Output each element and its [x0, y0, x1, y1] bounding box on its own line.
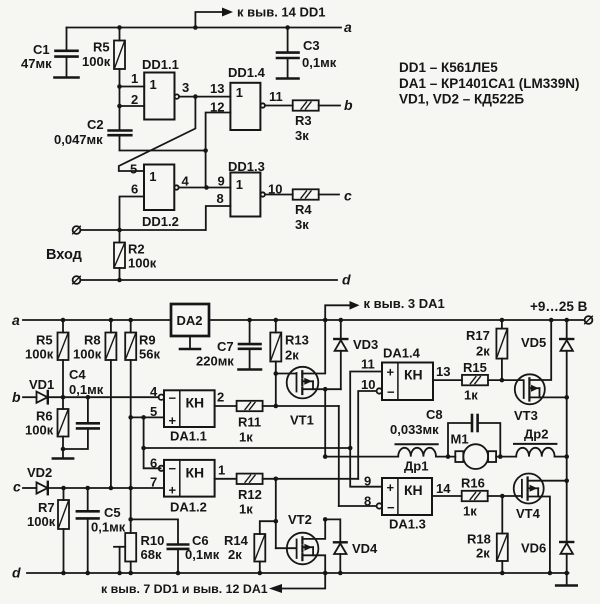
- wire gate riser VT1: [275, 374, 277, 407]
- wire feedback diagonal: [119, 97, 196, 171]
- node feedback branch: [141, 446, 146, 451]
- svg-text:+: +: [169, 483, 177, 498]
- resistor R18: [501, 496, 503, 534]
- VT1 substrate arrow: [303, 380, 313, 382]
- regulator DA2: [171, 304, 209, 336]
- wire pin 10: [358, 391, 376, 479]
- capacitor C1: [66, 28, 68, 51]
- svg-text:R3: R3: [295, 113, 312, 128]
- wire motor right: [496, 456, 516, 458]
- node line c R8: [109, 486, 114, 491]
- svg-text:3к: 3к: [295, 128, 309, 143]
- node VD5-VT3 drain: [564, 395, 569, 400]
- svg-text:2: 2: [131, 92, 138, 107]
- resistor R9: [130, 320, 132, 333]
- wire rail a top: [67, 27, 342, 29]
- VT4 substrate arrow: [528, 487, 538, 489]
- node pin5 branch: [141, 415, 146, 420]
- node R6-C4 bottom: [61, 447, 66, 452]
- op-amp DA1.1: [164, 390, 215, 427]
- svg-text:R5: R5: [93, 40, 110, 55]
- node VT2 drain node: [323, 517, 328, 522]
- svg-text:1к: 1к: [239, 430, 253, 445]
- svg-text:DA2: DA2: [177, 313, 203, 328]
- svg-text:56к: 56к: [139, 347, 160, 362]
- svg-text:0,1мк: 0,1мк: [91, 520, 126, 535]
- node pin5-R9: [128, 415, 133, 420]
- node R5-pin1: [117, 84, 122, 89]
- op-amp DD1.4: [230, 83, 260, 130]
- wire to pin 14 arrow: [195, 12, 223, 28]
- op-amp DA1.4: [382, 363, 433, 401]
- wire R15 to VT3 gate: [488, 379, 523, 381]
- wire VD4 jog: [325, 519, 340, 541]
- node line c R7: [61, 486, 66, 491]
- svg-text:КН: КН: [186, 395, 205, 411]
- wire pin 4 output: [179, 187, 231, 189]
- svg-text:100к: 100к: [25, 423, 54, 438]
- wire common reference line: [144, 447, 351, 449]
- svg-text:5: 5: [130, 162, 137, 177]
- svg-text:b: b: [12, 389, 21, 405]
- wire DA1.2 output 1: [215, 478, 237, 480]
- VT4 source tap: [528, 497, 550, 574]
- inductor Др2: [516, 448, 554, 457]
- svg-text:11: 11: [361, 357, 375, 372]
- svg-text:1: 1: [131, 71, 138, 86]
- svg-text:13: 13: [210, 81, 224, 96]
- capacitor C5: [87, 488, 89, 511]
- svg-text:0,1мк: 0,1мк: [185, 547, 220, 562]
- svg-text:VD6: VD6: [521, 541, 546, 556]
- wire pin5 to pin6 column: [144, 417, 161, 468]
- node VT1 drain junction: [323, 387, 328, 392]
- wire pin 8: [339, 505, 377, 507]
- svg-text:VD3: VD3: [353, 337, 378, 352]
- ground bar C7: [239, 368, 262, 371]
- svg-text:13: 13: [436, 364, 450, 379]
- node rail-C3 junction: [285, 25, 290, 30]
- svg-text:DA1.1: DA1.1: [170, 429, 207, 444]
- svg-text:R16: R16: [461, 476, 485, 491]
- wire R8 down to line c: [110, 360, 112, 488]
- svg-text:R8: R8: [84, 333, 101, 348]
- wire pin 8: [206, 206, 231, 230]
- terminal Вход lower: [73, 276, 81, 284]
- resistor R12: [237, 474, 263, 484]
- svg-text:КН: КН: [404, 482, 423, 498]
- channel VT1: [301, 371, 303, 377]
- VT3 substrate arrow: [530, 387, 540, 389]
- wire gate column VT2: [275, 479, 277, 548]
- VT1 source tap to rail: [302, 320, 325, 374]
- diode VD1: [23, 396, 37, 398]
- node R5-pin2: [117, 104, 122, 109]
- svg-text:VD1: VD1: [29, 377, 54, 392]
- svg-text:2к: 2к: [285, 348, 299, 363]
- svg-text:Вход: Вход: [46, 247, 82, 263]
- resistor R3: [293, 100, 319, 110]
- inductor Др1: [398, 448, 436, 457]
- op-amp DA1.3: [382, 478, 432, 515]
- wire R14 jog: [260, 521, 276, 534]
- node pin3 junction: [193, 94, 198, 99]
- node line b C4: [86, 395, 91, 400]
- wire Вход line: [81, 229, 206, 231]
- wire pin 11 output: [265, 105, 293, 107]
- wire line c into pin 7: [48, 487, 164, 489]
- capacitor C6: [131, 519, 178, 544]
- node gate-R13 junction: [274, 371, 279, 376]
- svg-text:12: 12: [210, 100, 224, 115]
- svg-text:C8: C8: [426, 407, 443, 422]
- svg-text:1: 1: [150, 77, 157, 92]
- svg-text:100к: 100к: [82, 54, 111, 69]
- svg-text:d: d: [342, 272, 351, 288]
- svg-text:C5: C5: [104, 505, 121, 520]
- svg-text:11: 11: [269, 89, 283, 104]
- wire R11 output: [263, 405, 339, 407]
- transistor VT4: [514, 474, 544, 504]
- node R2 bottom junction: [117, 278, 122, 283]
- op-amp DA1.2: [164, 460, 215, 497]
- svg-text:100к: 100к: [27, 514, 56, 529]
- label parts list: [399, 60, 579, 107]
- resistor R6: [62, 397, 64, 409]
- transistor VT3: [515, 374, 545, 404]
- svg-text:6: 6: [131, 182, 138, 197]
- wire pin 3 output: [179, 96, 230, 98]
- wire Др1 to motor: [436, 456, 455, 458]
- resistor R16: [462, 491, 488, 501]
- resistor R8: [110, 320, 112, 333]
- arrowhead к выв. 7: [269, 584, 282, 593]
- svg-text:b: b: [344, 97, 353, 113]
- svg-text:Др2: Др2: [524, 427, 548, 442]
- svg-text:−: −: [387, 500, 395, 515]
- node drain-motor junction: [323, 454, 328, 459]
- svg-text:R18: R18: [467, 532, 491, 547]
- svg-text:1: 1: [218, 463, 225, 478]
- svg-text:R6: R6: [36, 409, 53, 424]
- channel VT4: [526, 478, 528, 484]
- svg-text:VD2: VD2: [27, 465, 52, 480]
- svg-text:DD1.1: DD1.1: [142, 57, 179, 72]
- arrowhead к выв. 3: [350, 301, 360, 310]
- wire to pin 3 DA1 arrow: [325, 305, 350, 320]
- svg-text:R12: R12: [238, 487, 262, 502]
- svg-text:2к: 2к: [228, 547, 242, 562]
- svg-text:+: +: [387, 480, 395, 495]
- svg-text:КН: КН: [186, 465, 205, 481]
- ground bar C1: [55, 76, 79, 79]
- VT3 drain tap: [529, 396, 566, 398]
- svg-text:1к: 1к: [239, 502, 253, 517]
- svg-text:2к: 2к: [476, 546, 490, 561]
- svg-text:220мк: 220мк: [196, 354, 234, 369]
- capacitor C4: [87, 397, 89, 423]
- svg-text:c: c: [13, 479, 21, 495]
- svg-text:R7: R7: [38, 500, 55, 515]
- wire DA1.1 output 2: [215, 405, 237, 407]
- svg-text:c: c: [344, 188, 352, 204]
- resistor R5 (top): [119, 28, 121, 41]
- wire pin 9: [350, 448, 382, 487]
- svg-text:C1: C1: [33, 42, 50, 57]
- svg-text:10: 10: [361, 377, 375, 392]
- svg-text:0,047мк: 0,047мк: [54, 132, 103, 147]
- svg-text:DA1 – КР1401СА1 (LM339N): DA1 – КР1401СА1 (LM339N): [399, 76, 579, 91]
- channel VT3: [528, 378, 530, 384]
- wire line d top: [81, 279, 338, 281]
- svg-text:1: 1: [149, 169, 156, 184]
- svg-text:к выв. 7 DD1 и выв. 12 DA1: к выв. 7 DD1 и выв. 12 DA1: [101, 582, 268, 596]
- wire pin 10 output: [265, 194, 293, 196]
- node rail-arrow junction: [193, 25, 198, 30]
- svg-text:C3: C3: [303, 38, 320, 53]
- node reference-pin11/pin9: [348, 446, 353, 451]
- svg-text:47мк: 47мк: [21, 56, 52, 71]
- svg-text:4: 4: [182, 174, 190, 189]
- svg-text:R5: R5: [36, 333, 53, 348]
- node line c R9/R10: [128, 486, 133, 491]
- svg-text:3к: 3к: [295, 217, 309, 232]
- svg-text:DA1.4: DA1.4: [383, 346, 421, 361]
- node R12-gate junction: [274, 477, 279, 482]
- node rail-R5 junction: [117, 25, 122, 30]
- wire pin 1 DD1.1: [120, 86, 145, 88]
- ground bottom right: [566, 573, 568, 585]
- ground bar C3: [277, 77, 299, 80]
- op-amp DD1.2: [144, 165, 174, 211]
- svg-text:R11: R11: [238, 415, 261, 430]
- node rail junctions: [61, 318, 569, 323]
- svg-text:−: −: [169, 391, 177, 406]
- node C2 junction: [203, 148, 208, 153]
- capacitor C3: [287, 28, 289, 53]
- svg-text:1к: 1к: [464, 388, 478, 403]
- ground DA2: [189, 336, 191, 348]
- resistor R15: [462, 375, 488, 385]
- svg-text:0,1мк: 0,1мк: [69, 382, 104, 397]
- resistor R11: [237, 401, 263, 411]
- svg-text:+: +: [387, 365, 395, 380]
- wire drain down to motor line: [324, 389, 326, 456]
- resistor R4: [293, 189, 319, 199]
- svg-text:к выв. 14 DD1: к выв. 14 DD1: [237, 5, 326, 20]
- node Др2 junction: [564, 454, 569, 459]
- svg-text:DD1.3: DD1.3: [228, 159, 265, 174]
- svg-text:1к: 1к: [463, 504, 477, 519]
- wire R16 to VT4 gate: [488, 495, 522, 497]
- op-amp DD1.1: [144, 73, 174, 120]
- svg-text:100к: 100к: [128, 256, 157, 271]
- svg-text:R14: R14: [224, 533, 249, 548]
- svg-text:C4: C4: [69, 367, 86, 382]
- node R15-R17 junction: [500, 378, 505, 383]
- svg-text:a: a: [344, 19, 352, 35]
- svg-text:DD1.4: DD1.4: [228, 65, 266, 80]
- svg-text:R2: R2: [128, 242, 145, 257]
- VT2 drain tap: [302, 519, 325, 539]
- wire rail a bottom: [23, 319, 171, 321]
- wire DA1.3 output 14: [432, 495, 462, 497]
- wire VT2 gate: [276, 547, 297, 549]
- svg-text:14: 14: [436, 481, 451, 496]
- op-amp DD1.3: [230, 173, 260, 217]
- node motor-C8 junction: [498, 454, 503, 459]
- svg-text:6: 6: [150, 455, 157, 470]
- channel VT2: [301, 537, 303, 543]
- svg-text:C6: C6: [192, 533, 209, 548]
- resistor R17: [501, 320, 503, 329]
- svg-text:+9…25 В: +9…25 В: [530, 299, 588, 314]
- node R10-C6 branch: [128, 517, 133, 522]
- wire line d bottom rail: [27, 572, 569, 574]
- svg-text:2: 2: [217, 390, 224, 405]
- wire VD column to VT4 drain: [566, 457, 568, 481]
- svg-text:−: −: [387, 385, 395, 400]
- svg-text:100к: 100к: [73, 347, 102, 362]
- svg-text:DD1.2: DD1.2: [142, 214, 179, 229]
- resistor R10 trimmer: [130, 488, 132, 533]
- capacitor C7: [249, 320, 251, 344]
- terminal Вход upper: [73, 226, 81, 234]
- wire Др2 to VD column: [555, 456, 567, 458]
- svg-text:R9: R9: [139, 333, 156, 348]
- svg-text:2к: 2к: [476, 344, 490, 359]
- svg-text:VT2: VT2: [288, 512, 312, 527]
- wire R11 to pin 8 column: [338, 406, 340, 506]
- wire R12 output to pin10 column: [263, 478, 359, 480]
- VT3 source tap to rail: [529, 320, 551, 380]
- node R2 top junction: [117, 228, 122, 233]
- svg-text:R10: R10: [141, 533, 165, 548]
- resistor R13: [275, 320, 277, 333]
- svg-text:R4: R4: [295, 202, 312, 217]
- wire DA1.4 output 13: [433, 379, 462, 381]
- svg-text:−: −: [169, 461, 177, 476]
- wire pin5: [131, 416, 164, 418]
- ground bar R6: [53, 457, 73, 460]
- svg-text:100к: 100к: [25, 347, 54, 362]
- node rail d junctions: [61, 571, 569, 576]
- svg-text:C2: C2: [87, 117, 104, 132]
- resistor R2: [119, 230, 121, 243]
- wire R9 down to pin5 and line c: [130, 360, 132, 488]
- VT4 drain tap: [528, 480, 567, 482]
- svg-text:DA1.3: DA1.3: [389, 517, 426, 532]
- node line b R6: [61, 395, 66, 400]
- wire C2 to pin 12: [120, 113, 231, 151]
- resistor R7: [63, 488, 65, 500]
- svg-text:M1: M1: [451, 432, 469, 447]
- svg-text:8: 8: [217, 191, 224, 206]
- svg-text:R13: R13: [285, 333, 309, 348]
- node R11-gate junction: [274, 404, 279, 409]
- svg-text:VT4: VT4: [516, 506, 541, 521]
- svg-text:+: +: [169, 413, 177, 428]
- svg-text:1: 1: [236, 85, 243, 100]
- svg-text:КН: КН: [404, 367, 423, 383]
- svg-text:Др1: Др1: [404, 459, 428, 474]
- svg-text:0,1мк: 0,1мк: [302, 55, 337, 70]
- VT1 drain tap: [302, 388, 325, 390]
- svg-text:a: a: [12, 312, 20, 328]
- node VT4 drain junction: [564, 478, 569, 483]
- svg-text:VD5: VD5: [521, 335, 546, 350]
- svg-text:0,033мк: 0,033мк: [390, 422, 439, 437]
- transistor VT2: [287, 533, 319, 565]
- diode VD3: [340, 320, 342, 338]
- svg-text:9: 9: [218, 174, 225, 189]
- svg-text:R15: R15: [463, 360, 487, 375]
- svg-text:DA1.2: DA1.2: [170, 500, 207, 515]
- svg-text:DD1 – К561ЛЕ5: DD1 – К561ЛЕ5: [399, 60, 498, 75]
- svg-text:VT3: VT3: [514, 408, 538, 423]
- VT2 substrate arrow: [303, 546, 313, 548]
- wire pin 2 DD1.1: [120, 105, 145, 107]
- wire pin 6: [120, 197, 145, 231]
- wire to pin 7/12 arrow: [281, 573, 325, 589]
- node line c C5: [85, 486, 90, 491]
- svg-text:C7: C7: [217, 339, 234, 354]
- svg-text:7: 7: [150, 474, 157, 489]
- capacitor C2: [109, 129, 132, 132]
- svg-text:к выв. 3 DA1: к выв. 3 DA1: [364, 296, 445, 311]
- node R16-R18 junction: [500, 494, 505, 499]
- VT2 source tap: [302, 555, 325, 573]
- node pin4 junction: [204, 185, 209, 190]
- svg-text:R17: R17: [466, 328, 490, 343]
- svg-text:VD1, VD2 – КД522Б: VD1, VD2 – КД522Б: [399, 92, 524, 107]
- terminal +9...25 В: [585, 316, 593, 324]
- svg-text:10: 10: [268, 182, 282, 197]
- svg-text:d: d: [12, 565, 21, 581]
- wire line b: [48, 396, 159, 398]
- node R14 branch: [274, 519, 279, 524]
- transistor VT1: [287, 367, 319, 399]
- svg-text:1: 1: [236, 177, 243, 192]
- svg-text:VD4: VD4: [352, 541, 378, 556]
- svg-text:VT1: VT1: [290, 413, 314, 428]
- svg-text:3: 3: [182, 80, 189, 95]
- wire VT1 gate: [276, 373, 297, 375]
- arrowhead к выв. 14: [222, 8, 233, 17]
- wire pin12 node down to pin4 node: [205, 151, 207, 188]
- node motor left junction: [446, 454, 451, 459]
- diode VD4: [334, 541, 347, 543]
- wire motor line left: [325, 456, 398, 458]
- wire pin 11: [350, 372, 382, 449]
- resistor R5 (bottom): [62, 320, 64, 333]
- diode VD2: [23, 487, 37, 489]
- svg-text:68к: 68к: [141, 547, 162, 562]
